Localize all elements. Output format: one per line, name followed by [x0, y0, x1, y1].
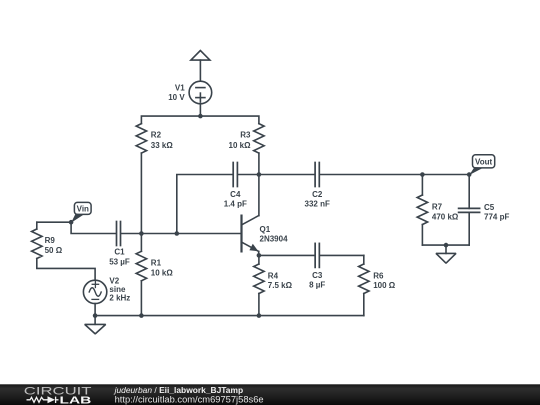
- svg-text:C1: C1: [114, 248, 125, 257]
- svg-text:774 pF: 774 pF: [484, 213, 509, 222]
- svg-text:50 Ω: 50 Ω: [45, 246, 63, 255]
- svg-text:LAB: LAB: [60, 396, 93, 405]
- svg-text:53 µF: 53 µF: [109, 257, 130, 266]
- svg-text:2N3904: 2N3904: [260, 235, 289, 244]
- svg-text:10 V: 10 V: [168, 93, 185, 102]
- svg-text:C4: C4: [230, 190, 241, 199]
- svg-text:R7: R7: [432, 202, 443, 211]
- svg-text:332 nF: 332 nF: [305, 199, 330, 208]
- svg-text:C2: C2: [312, 190, 323, 199]
- svg-text:470 kΩ: 470 kΩ: [432, 212, 459, 221]
- svg-text:1.4 pF: 1.4 pF: [224, 199, 247, 208]
- svg-text:R4: R4: [268, 271, 279, 280]
- svg-text:10 kΩ: 10 kΩ: [229, 141, 252, 150]
- svg-text:100 Ω: 100 Ω: [373, 281, 396, 290]
- svg-text:http://circuitlab.com/cm69757j: http://circuitlab.com/cm69757j58s6e: [115, 394, 264, 404]
- svg-text:C5: C5: [484, 203, 495, 212]
- svg-text:R1: R1: [151, 259, 162, 268]
- svg-text:Vin: Vin: [77, 205, 89, 214]
- svg-text:33 kΩ: 33 kΩ: [151, 141, 174, 150]
- svg-text:C3: C3: [312, 271, 323, 280]
- svg-text:V1: V1: [175, 84, 185, 93]
- svg-text:R2: R2: [151, 131, 162, 140]
- svg-text:R3: R3: [240, 131, 251, 140]
- svg-text:10 kΩ: 10 kΩ: [151, 268, 174, 277]
- svg-text:Vout: Vout: [475, 158, 493, 167]
- svg-text:7.5 kΩ: 7.5 kΩ: [268, 281, 293, 290]
- svg-text:2 kHz: 2 kHz: [109, 293, 130, 302]
- svg-text:8 µF: 8 µF: [309, 281, 325, 290]
- svg-text:Q1: Q1: [260, 225, 271, 234]
- svg-text:R9: R9: [45, 236, 56, 245]
- svg-text:R6: R6: [373, 271, 384, 280]
- svg-text:judeurban / Eii_labwork_BJTamp: judeurban / Eii_labwork_BJTamp: [114, 385, 243, 395]
